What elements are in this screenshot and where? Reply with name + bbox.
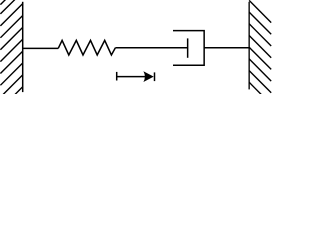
arrow end tick — [154, 72, 156, 81]
left wall hatching — [0, 0, 22, 109]
wire left rod — [23, 47, 59, 49]
damper piston — [187, 38, 189, 57]
right wall — [248, 2, 250, 90]
arrow start tick — [116, 72, 118, 81]
arrow head — [143, 71, 153, 82]
spring — [58, 40, 115, 55]
wire right rod — [204, 47, 249, 49]
left wall — [22, 2, 24, 92]
arrow shaft — [117, 76, 148, 78]
damper cylinder — [173, 31, 204, 66]
right wall hatching — [249, 0, 271, 104]
wire middle rod — [115, 47, 187, 49]
